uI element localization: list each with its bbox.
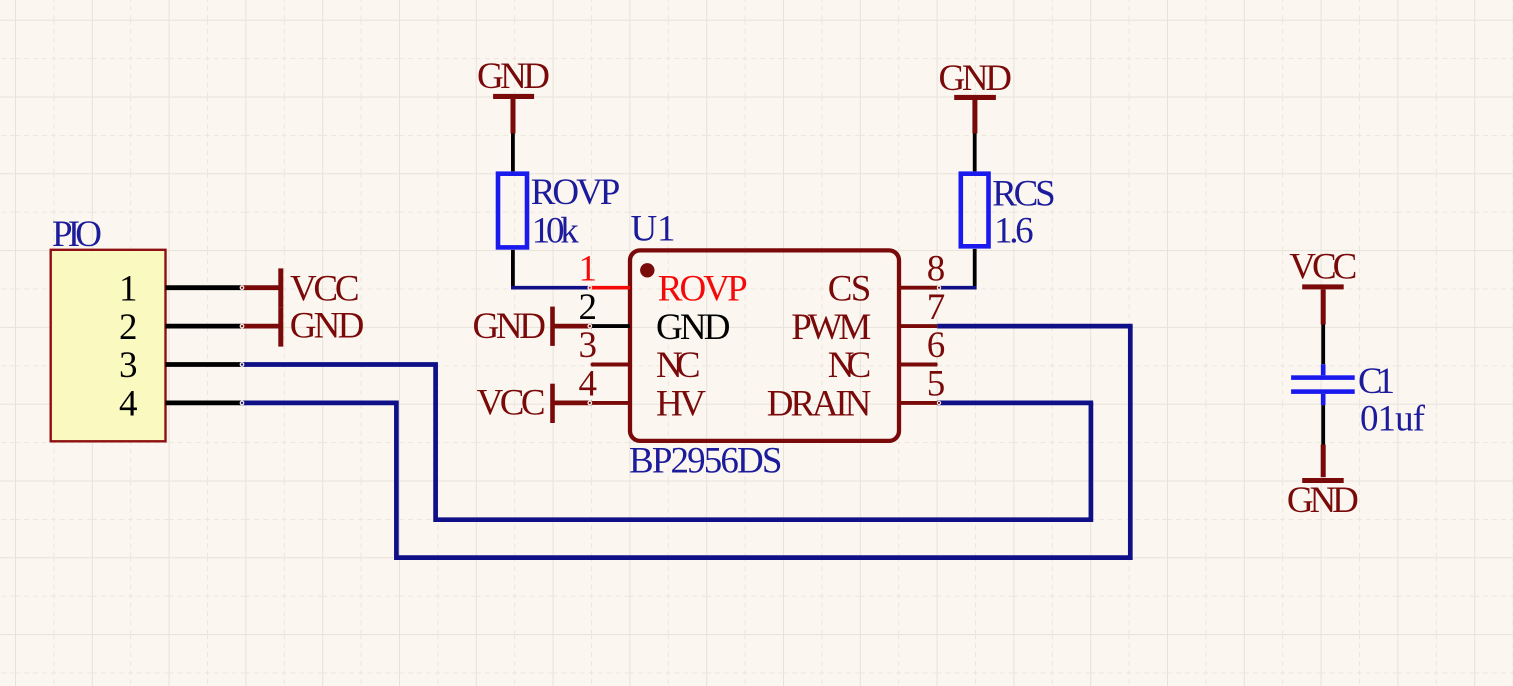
U1 pin 3 NC bbox=[579, 325, 701, 386]
op-amp U1 BP2956DS body bbox=[630, 250, 899, 441]
power port GND below capacitor C1 bbox=[1287, 445, 1359, 521]
junction marker at PIO pin 4 end bbox=[240, 401, 245, 406]
power port GND above resistor RCS bbox=[939, 58, 1013, 134]
connector PIO pin 3 bbox=[119, 345, 241, 386]
U1 pin 7 PWM bbox=[791, 287, 945, 348]
svg-text:1.6: 1.6 bbox=[994, 210, 1034, 251]
svg-text:7: 7 bbox=[927, 287, 946, 328]
junction marker at U1 pin 4 end bbox=[587, 401, 592, 406]
svg-text:3: 3 bbox=[579, 325, 598, 366]
wire GND to resistor ROVP top bbox=[511, 134, 515, 172]
svg-text:C1: C1 bbox=[1358, 361, 1395, 402]
U1 pin 1 ROVP bbox=[579, 248, 748, 309]
svg-text:GND: GND bbox=[290, 306, 365, 347]
U1 pin 2 GND bbox=[579, 287, 731, 348]
pin end dot at U1 pin 6 bbox=[934, 362, 938, 366]
svg-text:PWM: PWM bbox=[791, 307, 871, 348]
svg-text:HV: HV bbox=[656, 384, 706, 425]
svg-text:RCS: RCS bbox=[992, 174, 1055, 215]
U1 designator label bbox=[631, 208, 676, 249]
junction marker at PIO pin 1 end bbox=[240, 285, 245, 290]
U1 value label BP2956DS bbox=[629, 441, 783, 482]
junction marker at PIO pin 2 end bbox=[240, 324, 245, 329]
svg-text:1: 1 bbox=[119, 268, 138, 309]
svg-text:1: 1 bbox=[579, 248, 598, 289]
svg-text:6: 6 bbox=[927, 325, 946, 366]
svg-text:VCC: VCC bbox=[290, 269, 360, 310]
power port GND above resistor ROVP bbox=[477, 56, 550, 134]
svg-text:VCC: VCC bbox=[477, 382, 546, 423]
wire resistor ROVP bottom to IC pin 1 bbox=[511, 250, 591, 290]
U1 pin 8 CS bbox=[828, 248, 945, 309]
pin end dot at U1 pin 3 bbox=[591, 362, 595, 366]
svg-text:GND: GND bbox=[477, 56, 550, 97]
svg-text:4: 4 bbox=[119, 384, 138, 425]
wire PIO pin3 to DRAIN net bbox=[241, 365, 1091, 520]
power port GND at U1 pin 2 bbox=[473, 306, 592, 347]
power port VCC above capacitor C1 bbox=[1289, 247, 1357, 325]
svg-text:GND: GND bbox=[473, 306, 547, 347]
svg-text:GND: GND bbox=[656, 307, 731, 348]
connector PIO pin 2 bbox=[119, 307, 241, 348]
svg-text:GND: GND bbox=[939, 58, 1013, 99]
power port VCC at PIO pin 1 bbox=[241, 268, 359, 309]
connector PIO pin 1 bbox=[119, 268, 241, 309]
svg-text:4: 4 bbox=[579, 364, 598, 405]
svg-text:BP2956DS: BP2956DS bbox=[629, 441, 783, 482]
svg-text:PIO: PIO bbox=[52, 214, 102, 255]
junction marker at U1 pin 8 end bbox=[937, 286, 941, 290]
junction marker at U1 pin 2 end bbox=[587, 324, 592, 329]
svg-text:01uf: 01uf bbox=[1360, 399, 1426, 440]
svg-text:3: 3 bbox=[119, 345, 138, 386]
capacitor C1 01uf bbox=[1291, 361, 1426, 440]
svg-text:10k: 10k bbox=[532, 210, 580, 251]
U1 pin 5 DRAIN bbox=[767, 364, 945, 425]
svg-text:VCC: VCC bbox=[1289, 247, 1357, 288]
connector PIO body bbox=[51, 250, 166, 441]
svg-text:NC: NC bbox=[828, 345, 872, 386]
connector PIO designator label bbox=[52, 214, 102, 255]
resistor RCS 1.6 bbox=[961, 174, 1056, 252]
svg-text:DRAIN: DRAIN bbox=[767, 384, 872, 425]
wire U1 pin 7 PWM to net bbox=[937, 324, 1132, 329]
svg-text:CS: CS bbox=[828, 268, 872, 309]
wire GND to resistor RCS top bbox=[973, 134, 977, 172]
U1 pin 6 NC bbox=[828, 325, 945, 386]
wire VCC to capacitor C1 top bbox=[1321, 325, 1325, 365]
wire resistor RCS bottom to U1 pin 8 bbox=[937, 249, 976, 290]
junction marker at PIO pin 3 end bbox=[240, 362, 245, 367]
connector PIO pin 4 bbox=[119, 384, 241, 425]
power port VCC at U1 pin 4 bbox=[477, 382, 592, 423]
svg-text:U1: U1 bbox=[631, 208, 676, 249]
wire U1 pin 5 DRAIN to net bbox=[937, 401, 1093, 406]
junction marker at U1 pin 1 end bbox=[587, 285, 592, 290]
resistor ROVP 10k bbox=[498, 172, 620, 251]
svg-text:GND: GND bbox=[1287, 480, 1359, 521]
junction marker at U1 pin 5 end bbox=[937, 401, 941, 405]
svg-text:ROVP: ROVP bbox=[531, 172, 621, 213]
power port GND at PIO pin 2 bbox=[241, 306, 364, 347]
svg-text:5: 5 bbox=[927, 364, 946, 405]
wire PIO pin4 to PWM net bbox=[241, 326, 1130, 557]
wire capacitor C1 bottom to GND bbox=[1321, 405, 1325, 444]
svg-text:2: 2 bbox=[119, 307, 138, 348]
svg-text:ROVP: ROVP bbox=[658, 268, 748, 309]
U1 pin 4 HV bbox=[579, 364, 707, 425]
svg-text:8: 8 bbox=[927, 248, 946, 289]
svg-text:2: 2 bbox=[579, 287, 598, 328]
svg-text:NC: NC bbox=[656, 345, 701, 386]
